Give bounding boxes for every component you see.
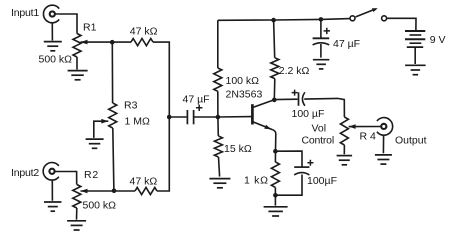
wire R1 wiper to node A <box>81 41 132 43</box>
svg-text:100µF: 100µF <box>307 175 337 187</box>
capacitor C2 47 µF plates <box>313 38 330 45</box>
svg-text:1 MΩ: 1 MΩ <box>125 115 151 127</box>
svg-text:Output: Output <box>395 134 427 146</box>
input jack J1 Input1 <box>43 5 59 23</box>
C4 + polarity mark <box>307 160 313 166</box>
node rail/2.2k junction <box>271 18 276 23</box>
svg-text:15 kΩ: 15 kΩ <box>224 143 252 155</box>
node rail/47µF junction <box>319 17 324 22</box>
svg-text:47 µF: 47 µF <box>333 38 360 50</box>
wire C3 to R4 top <box>304 98 344 117</box>
wire R2 bottom to ground <box>76 208 78 220</box>
R4 wiper arrow <box>349 124 356 129</box>
ground under J1 <box>44 42 62 51</box>
node B junction <box>112 189 117 194</box>
svg-text:Control: Control <box>302 135 334 147</box>
wire C2 to ground <box>320 44 322 58</box>
wire 2.2k to collector node <box>273 79 276 100</box>
ground at R3 wiper <box>86 139 104 148</box>
C2 + polarity mark <box>324 28 330 34</box>
top rail <box>218 19 350 21</box>
wire rail to C2 <box>320 19 322 38</box>
wire J1 center to R1 top <box>55 14 77 34</box>
wire emitter node to 1k <box>274 151 276 162</box>
potentiometer R2 500k <box>73 185 81 209</box>
resistor 1 kΩ <box>271 162 279 187</box>
node collector junction <box>272 98 277 103</box>
node x169/cap tee junction <box>167 115 172 120</box>
battery B1 9V <box>405 31 425 47</box>
transistor Q1 2N3563 <box>252 100 274 130</box>
wire node A down to R3 <box>111 42 113 103</box>
node base junction <box>216 115 221 120</box>
svg-text:2.2 kΩ: 2.2 kΩ <box>279 65 310 77</box>
resistor 47 kΩ (bottom) <box>135 187 157 194</box>
svg-text:9 V: 9 V <box>430 34 446 46</box>
input jack J2 Input2 <box>43 163 59 181</box>
C1 + polarity mark <box>196 105 202 111</box>
wire 15k bottom to ground <box>219 157 220 177</box>
wire J3 sleeve to ground <box>382 135 384 153</box>
svg-text:500 kΩ: 500 kΩ <box>83 199 117 211</box>
ground under C2 <box>313 60 330 69</box>
capacitor C1 47 µF plates <box>187 110 193 124</box>
svg-text:47 kΩ: 47 kΩ <box>130 26 158 38</box>
wire R4 bottom to ground <box>343 145 345 154</box>
wire top rail corner down to 100k <box>217 20 219 68</box>
svg-text:100 µF: 100 µF <box>292 108 325 120</box>
wire rail to 2.2k <box>274 20 275 58</box>
capacitor C3 100 µF plates <box>299 92 305 106</box>
wire 47k bottom to x169 riser <box>157 117 169 191</box>
wire J2 center to R2 top <box>55 172 77 185</box>
wire Q1 emitter corner down <box>273 130 276 152</box>
wire base node to Q1 base <box>218 116 251 118</box>
svg-text:100 kΩ: 100 kΩ <box>226 75 260 87</box>
ground under J3 <box>375 155 392 164</box>
wire R1 bottom to ground <box>76 57 78 70</box>
R3 wiper arrow <box>101 119 108 124</box>
R1 wiper arrow <box>81 40 88 45</box>
potentiometer R3 1M <box>109 103 117 128</box>
switch S1 <box>350 9 387 21</box>
svg-text:R3: R3 <box>124 100 138 112</box>
node 1k bottom junction <box>273 193 278 198</box>
node A junction <box>110 40 115 45</box>
wire 100k bottom to base node <box>217 91 219 117</box>
wire tee to C1 <box>169 116 186 118</box>
resistor 100 kΩ <box>214 68 222 91</box>
ground under J2 <box>44 202 62 211</box>
svg-text:2N3563: 2N3563 <box>226 88 263 100</box>
wire R3 wiper to ground <box>94 121 109 138</box>
wire R3 bottom to node B <box>113 128 114 191</box>
svg-text:Input2: Input2 <box>11 167 39 179</box>
wire R2 wiper to node B <box>81 190 136 192</box>
wire C4 to 1k bottom <box>275 175 302 196</box>
svg-text:47 kΩ: 47 kΩ <box>130 175 158 187</box>
wire battery to ground <box>414 47 416 64</box>
wire 1k bottom to ground <box>274 195 276 205</box>
ground under R1 <box>68 71 88 80</box>
wire J2 sleeve to ground <box>51 180 53 201</box>
svg-text:R2: R2 <box>84 169 99 181</box>
R2 wiper arrow <box>81 189 88 194</box>
wire R4 wiper to output jack <box>349 126 382 128</box>
svg-text:47 µF: 47 µF <box>183 93 210 105</box>
ground under 1k <box>264 207 288 216</box>
svg-text:500 kΩ: 500 kΩ <box>39 53 73 65</box>
svg-text:R1: R1 <box>83 21 97 33</box>
wire C1 to base node <box>194 116 218 118</box>
svg-text:Input1: Input1 <box>11 7 39 19</box>
wire S1 to battery <box>387 18 416 30</box>
resistor 15 kΩ <box>214 136 222 157</box>
svg-text:Vol: Vol <box>312 122 327 134</box>
capacitor C4 100 µF plates <box>294 167 309 175</box>
ground under R4 <box>337 156 353 165</box>
svg-text:R 4: R 4 <box>360 130 377 142</box>
ground under R2 <box>67 221 86 230</box>
wire 47k to x169 rail corner <box>153 42 169 117</box>
output jack J3 <box>377 118 393 136</box>
wire collector node to C3 <box>274 98 297 100</box>
wire J1 sleeve to ground <box>51 23 53 41</box>
resistor 2.2 kΩ <box>271 58 279 79</box>
node emitter/1k junction <box>273 149 278 154</box>
svg-text:1 kΩ: 1 kΩ <box>244 175 269 187</box>
C3 + polarity mark <box>292 90 298 96</box>
potentiometer R4 <box>340 117 348 145</box>
wire base node down to 15k <box>217 117 219 136</box>
ground under 15k <box>209 179 230 188</box>
wire emitter node to C4 <box>276 151 303 167</box>
resistor 47 kΩ (top) <box>131 39 153 46</box>
potentiometer R1 500k <box>73 34 81 58</box>
wire 1k to ground node <box>274 187 276 195</box>
ground under battery <box>405 65 426 74</box>
